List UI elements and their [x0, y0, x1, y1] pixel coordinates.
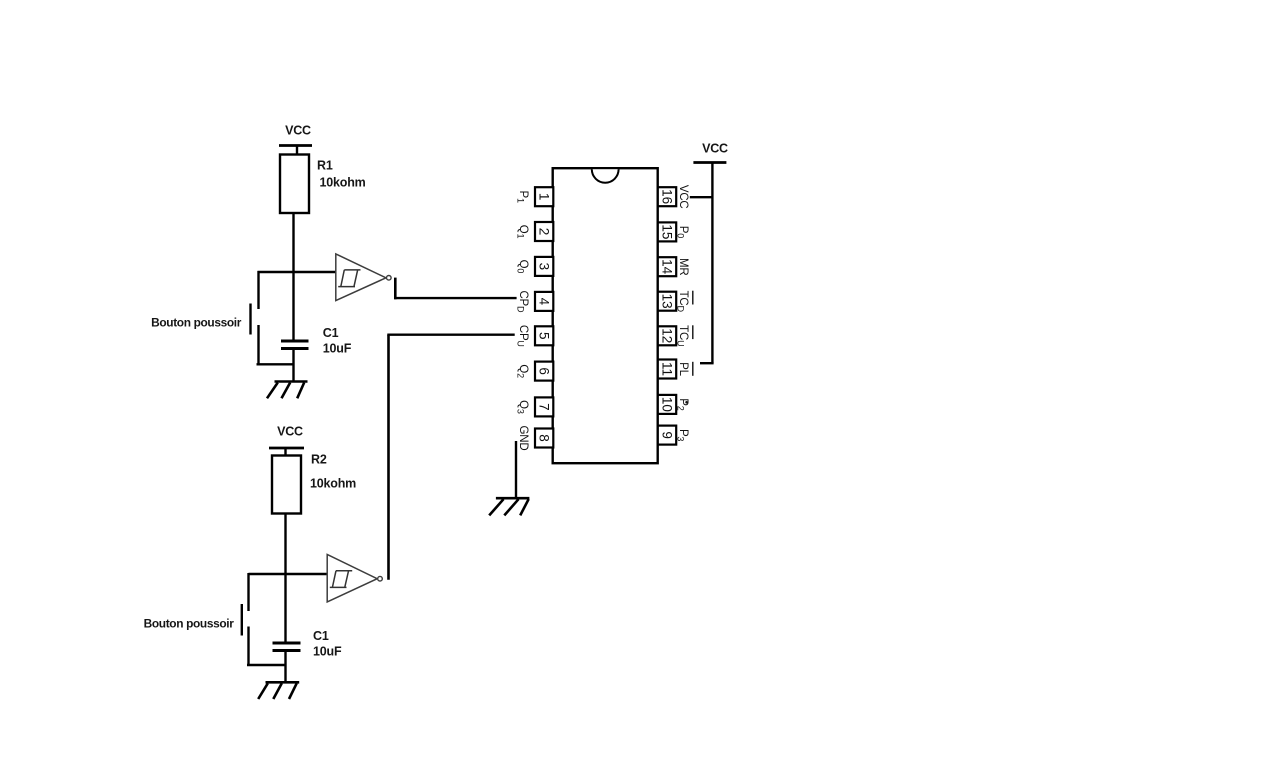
IC U1 body	[553, 168, 658, 463]
VCC rail bar (R1)	[279, 144, 312, 147]
svg-text:PL: PL	[677, 362, 689, 376]
svg-text:3: 3	[537, 263, 552, 271]
VCC rail vertical wire	[711, 163, 713, 364]
svg-text:2: 2	[537, 228, 552, 236]
resistor R2	[272, 456, 301, 514]
overline TCD (pin 13)	[692, 291, 694, 305]
pin 3 box	[535, 257, 553, 276]
svg-text:R1: R1	[317, 159, 333, 173]
pin 4 box	[535, 292, 553, 311]
pin 10 box	[658, 395, 676, 414]
svg-text:Q3: Q3	[516, 400, 530, 414]
svg-text:GND: GND	[517, 426, 529, 451]
svg-text:VCC: VCC	[677, 185, 689, 209]
svg-text:TCU: TCU	[676, 325, 690, 346]
pin 6 box	[535, 362, 553, 381]
pin 2 box	[535, 222, 553, 241]
pin 8 box	[535, 429, 553, 448]
wire VCC rail to pin 11 PL	[700, 362, 714, 364]
svg-text:10kohm: 10kohm	[320, 176, 366, 190]
schmitt trigger inverter U2A	[336, 254, 391, 301]
svg-text:16: 16	[659, 189, 674, 204]
svg-text:9: 9	[659, 431, 674, 439]
svg-text:13: 13	[659, 294, 674, 309]
IC U1 notch	[592, 169, 619, 182]
VCC rail bar (IC)	[693, 161, 726, 164]
svg-text:10uF: 10uF	[313, 645, 342, 659]
wire VCC bar to R1	[296, 146, 298, 156]
wire SW2 to ground junction	[247, 664, 286, 666]
capacitor C2 bottom plate	[273, 649, 301, 652]
svg-text:10kohm: 10kohm	[310, 477, 356, 491]
wire C1 to ground	[292, 350, 294, 382]
pushbutton SW2 actuator bar	[241, 604, 243, 636]
svg-text:14: 14	[659, 259, 674, 275]
schmitt trigger inverter U2B	[327, 554, 382, 602]
pin 11 box	[658, 360, 676, 379]
pin 7 box	[535, 397, 553, 416]
svg-text:Bouton poussoir: Bouton poussoir	[151, 316, 242, 330]
node B wire to inverter input	[249, 573, 328, 575]
svg-text:CPU: CPU	[516, 325, 530, 347]
pushbutton SW1 lower contact wire	[257, 325, 259, 364]
wire R2 to node B and capacitor C2	[284, 514, 286, 643]
ground (C2)	[258, 682, 299, 699]
capacitor C1 bottom plate	[281, 347, 309, 350]
svg-text:12: 12	[659, 328, 674, 343]
wire node A to pushbutton SW1 upper contact	[257, 271, 259, 309]
svg-text:Q1: Q1	[516, 225, 530, 239]
svg-text:P2: P2	[676, 398, 690, 410]
wire to pin 5 CPU	[387, 334, 514, 336]
svg-text:15: 15	[659, 224, 674, 239]
capacitor C2 top plate	[273, 642, 301, 645]
wire VCC rail to pin 16	[690, 196, 713, 198]
svg-text:VCC: VCC	[702, 141, 728, 155]
svg-text:MR: MR	[677, 258, 689, 276]
svg-text:Bouton poussoir: Bouton poussoir	[144, 617, 235, 631]
pin 9 box	[658, 426, 676, 445]
svg-text:8: 8	[537, 434, 552, 442]
svg-text:7: 7	[537, 403, 552, 411]
ground (C1)	[267, 382, 308, 399]
wire R1 to node A and capacitor C1	[292, 213, 294, 340]
svg-text:P3: P3	[676, 429, 690, 441]
svg-text:Q0: Q0	[516, 260, 530, 274]
svg-text:VCC: VCC	[277, 425, 303, 439]
svg-text:C1: C1	[313, 629, 329, 643]
wire GND pin 8 to ground	[515, 441, 517, 498]
wire U2A output down	[394, 278, 397, 300]
svg-text:C1: C1	[323, 326, 339, 340]
pushbutton SW1 actuator bar	[249, 304, 251, 335]
svg-text:10uF: 10uF	[323, 342, 352, 356]
VCC rail bar (R2)	[269, 447, 304, 450]
svg-text:6: 6	[537, 367, 552, 375]
svg-text:TCD: TCD	[676, 291, 690, 313]
pin 16 box	[658, 187, 676, 206]
overline PL (pin 11)	[692, 362, 694, 376]
svg-text:10: 10	[659, 397, 674, 412]
pin 12 box	[658, 326, 676, 345]
overline TCU (pin 12)	[692, 325, 694, 339]
capacitor C1 top plate	[281, 340, 309, 343]
svg-text:1: 1	[537, 193, 552, 201]
pin 13 box	[658, 292, 676, 311]
wire VCC bar to R2	[284, 448, 286, 456]
svg-text:R2: R2	[311, 453, 327, 467]
wire C2 to ground	[284, 652, 286, 682]
ground (IC GND)	[489, 498, 529, 515]
wire node B to pushbutton SW2 upper contact	[247, 573, 249, 611]
svg-text:11: 11	[659, 362, 674, 376]
node A wire to inverter input	[258, 271, 337, 273]
pin 14 box	[658, 257, 676, 276]
pin 1 box	[535, 187, 553, 206]
wire U2A output to pin 4 CPD	[394, 297, 516, 299]
pin 5 box	[535, 326, 553, 345]
svg-text:Q2: Q2	[516, 364, 530, 378]
svg-text:CPD: CPD	[516, 290, 530, 313]
resistor R1	[280, 155, 309, 214]
svg-text:P1: P1	[516, 191, 530, 203]
svg-text:4: 4	[537, 298, 552, 306]
svg-text:5: 5	[537, 332, 552, 340]
pushbutton SW2 lower contact wire	[247, 627, 249, 666]
svg-text:VCC: VCC	[285, 124, 311, 138]
wire U2B output up to CPU line	[387, 335, 390, 580]
wire SW1 to ground junction	[257, 363, 294, 365]
dot near P2 label (pin 10)	[685, 401, 688, 404]
svg-text:P0: P0	[676, 226, 690, 238]
pin 15 box	[658, 222, 676, 241]
